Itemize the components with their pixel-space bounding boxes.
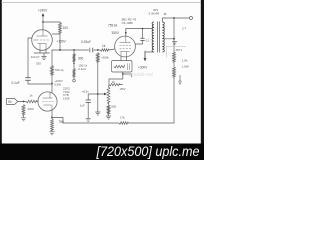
tube V2 envelope [32,30,53,51]
ground grid leak [95,112,100,115]
wire V3 cathode pins [121,57,127,61]
node secondary top [173,17,175,19]
resistor below pot [107,105,110,114]
resistor cathode inside box [114,65,125,67]
frame right border [201,0,204,146]
tube V2 internals [34,31,49,50]
svg-text:-86V: -86V [119,87,125,91]
input jack IN [6,99,17,105]
wire box stub right [123,74,132,77]
svg-text:100: 100 [63,26,69,30]
svg-text:1399: 1399 [63,97,70,101]
svg-text:+150V: +150V [57,39,67,43]
capacitor 0.1uF plates [25,78,31,80]
svg-text:tubelab.net: tubelab.net [128,72,153,78]
node V1 plate [51,83,53,85]
resistor load upper [173,52,176,62]
svg-text:7591A: 7591A [108,23,118,27]
ground input [21,118,26,121]
ground V2 cathode [41,57,46,60]
svg-text:1uF: 1uF [80,103,85,107]
arrow annotation feedback [179,75,181,82]
ground V1 cathode [49,132,54,135]
wire V3 screen stub [135,43,142,45]
wire V2 cathode pins [34,50,50,53]
node input junction [23,101,25,103]
svg-text:45?'s: 45?'s [175,48,182,52]
tube V1 envelope [38,92,57,111]
wire 2k tick [120,84,123,86]
wire into V1 grid [37,101,39,103]
resistor grid leak [22,105,25,116]
wire to ground [23,115,25,117]
svg-text:2k: 2k [112,80,116,84]
resistor grid leak 500k [96,53,99,63]
wire coupling line [52,49,89,51]
arrow B+ down [144,58,147,62]
svg-text:560: 560 [111,105,116,109]
frame top border [1,1,201,3]
svg-text:300: 300 [78,56,84,60]
tube V3 internals [120,36,132,56]
wire plate node down [59,33,61,50]
svg-text:12AU7: 12AU7 [31,55,40,59]
wire wiper to bypass cap [88,94,98,100]
node below box [122,72,124,74]
potentiometer body [107,87,110,103]
svg-text:2.?: 2.? [182,27,186,31]
wire cathode to bus [52,118,63,124]
terminal output [190,17,193,20]
resistor 2k horizontal [109,83,120,85]
resistor grid series [26,100,37,103]
wire secondary top output [162,18,189,22]
ground pot [106,116,111,119]
resistor load lower [173,67,176,77]
dashed box output [167,46,187,57]
transformer core [158,22,160,53]
terminal open circle [73,79,76,82]
svg-text:1.8k: 1.8k [182,59,188,63]
ground bypass cap [86,118,91,121]
svg-text:17k: 17k [120,116,125,120]
node B+ junction [42,21,44,23]
wire V1 cathode [51,111,53,118]
wire V2 top pin [42,22,44,31]
resistor 17k in bus [119,122,128,125]
svg-text:0.1uF: 0.1uF [12,81,20,85]
watermark bar [0,144,204,161]
wire wiper arrow [98,93,105,95]
wire to V3 grid [109,49,115,50]
cathode box V3 [112,61,133,73]
capacitor bypass inside box [127,63,129,70]
node cathode junction [51,117,53,119]
svg-text:IN: IN [8,100,12,104]
node wiper tap [97,93,99,95]
svg-text:0.33uF: 0.33uF [81,40,91,44]
svg-text:0.5W: 0.5W [54,83,61,87]
wire to bias network [109,74,123,84]
wire bottom bus left [63,122,119,124]
resistor divider upper [73,54,76,62]
wire plate of V2 [52,33,60,35]
node coupling junction [73,49,75,51]
node tap junction [173,38,175,40]
svg-text:C5-1988: C5-1988 [122,21,133,25]
wire load to bus [173,77,175,123]
transformer secondary winding [162,22,164,52]
wire B+ to plate resistor [43,21,60,24]
tube V3 envelope [115,36,136,57]
svg-text:6.3K-8R: 6.3K-8R [149,12,160,16]
svg-text:350V: 350V [112,31,120,35]
svg-text:330: 330 [36,62,41,66]
ground secondary [172,42,177,45]
node grid junction [97,49,99,51]
svg-text:+240V: +240V [38,9,48,13]
node plate junction [59,49,61,51]
node plate annotation [125,32,127,34]
wire V3 plate [126,29,153,37]
svg-text:1k: 1k [102,44,106,48]
wire jack to grid resistor [18,101,26,103]
resistor grid stopper [100,49,108,52]
frame left border [0,0,2,146]
svg-text:3300: 3300 [27,107,34,111]
wire cap to ground [87,103,89,119]
transformer primary winding [152,22,154,52]
svg-text:+8.5v: +8.5v [82,90,90,94]
wire cap to grid node [93,49,100,51]
wire V2 grid left [28,38,32,77]
capacitor bypass plates [86,100,91,103]
wire cap to V1 plate node [28,80,52,84]
wire bottom bus right [128,122,174,124]
resistor cathode 750 [51,119,54,131]
capacitor snubber [142,29,144,45]
svg-text:+300V: +300V [138,66,148,70]
B+ feed arrow [42,15,44,23]
svg-text:0.1: 0.1 [146,38,150,42]
svg-text:763-1p: 763-1p [55,68,64,72]
capacitor 0.33uF [89,48,91,53]
wire V1 plate up [51,84,53,93]
wire grid leak down [97,62,99,112]
resistor divider lower [73,69,76,78]
svg-text:~500k: ~500k [101,56,110,60]
resistor V1 plate load [51,75,53,84]
node divider mid [73,63,75,65]
svg-text:0.4uA: 0.4uA [78,67,86,71]
svg-text:[720x500] uplc.me: [720x500] uplc.me [96,144,200,159]
wire secondary tap [162,38,174,40]
svg-text:1.8W: 1.8W [182,64,189,68]
resistor R plate 100 [59,23,62,34]
tube V1 internals [43,92,54,111]
wire primary bottom to B+ [145,52,154,59]
wire cathode stub [43,53,45,56]
svg-text:(B: (B [164,12,167,16]
wire feedback vertical [173,18,175,52]
